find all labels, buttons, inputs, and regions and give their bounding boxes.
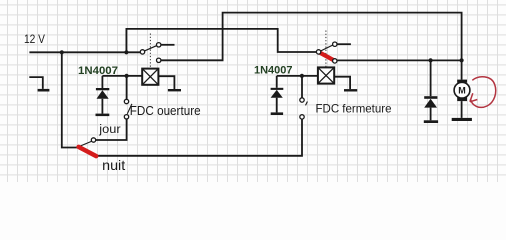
wire right diode riser xyxy=(276,76,278,88)
svg-text:FDC ouerture: FDC ouerture xyxy=(130,103,201,118)
FDC fermeture contact top xyxy=(300,98,304,102)
wire rightmost diode lead xyxy=(430,108,432,121)
FDC ouverture contact bottom xyxy=(124,115,128,119)
wire right relay to ground xyxy=(334,77,350,89)
wire motor bottom lead xyxy=(461,101,463,118)
wire 12V rail xyxy=(29,51,140,53)
svg-text:jour: jour xyxy=(98,122,120,136)
wire FDC ouverture top xyxy=(126,76,128,99)
wire right switch bottom throw to motor column xyxy=(337,59,462,61)
svg-text:12 V: 12 V xyxy=(24,32,45,46)
switch K1 blade (left, to top throw) xyxy=(145,46,157,51)
wire right diode lead xyxy=(276,98,278,113)
contact circle right switch top throw xyxy=(333,42,337,46)
wire stub right switch top throw xyxy=(337,43,351,45)
FDC fermeture switch tick xyxy=(306,102,308,106)
relay coil K2 box xyxy=(318,67,334,83)
wire left diode riser xyxy=(101,76,103,88)
jour/nuit switch red blade (nuit) xyxy=(79,147,97,156)
FDC ouverture switch blade xyxy=(127,104,132,114)
relay coil K1 box xyxy=(142,69,158,85)
diode D3 (motor clamp) xyxy=(424,96,437,107)
wire left relay feed xyxy=(102,75,142,77)
switch K2 red blade xyxy=(320,53,334,61)
svg-text:M: M xyxy=(458,86,466,96)
contact circle right switch bottom throw xyxy=(333,59,337,63)
contact circle right switch common xyxy=(316,50,320,54)
ground right relay xyxy=(344,89,357,91)
junction dot diode column xyxy=(429,58,433,62)
contact circle left switch bottom throw xyxy=(157,58,161,62)
switch K2 thin line to top throw xyxy=(321,45,333,51)
svg-text:FDC fermeture: FDC fermeture xyxy=(316,101,392,115)
svg-text:1N4007: 1N4007 xyxy=(78,65,118,77)
diode D1 (left 1N4007) xyxy=(96,88,109,99)
ground right diode xyxy=(271,112,283,115)
wire FDC fermeture top xyxy=(301,76,303,98)
diode D2 (right 1N4007) xyxy=(271,88,284,98)
junction dot right relay feed xyxy=(300,74,304,78)
junction dot motor column xyxy=(460,58,464,62)
ground left relay xyxy=(168,89,181,91)
contact circle left switch top throw xyxy=(157,43,161,47)
ground rightmost diode xyxy=(424,120,438,123)
dotted actuation line left relay xyxy=(149,34,151,69)
ground left supply xyxy=(38,89,50,92)
wire left ground hook xyxy=(29,77,43,89)
wire left vertical to jour/nuit switch xyxy=(62,52,78,147)
junction dot left relay feed xyxy=(125,74,129,78)
jour/nuit switch open line to jour contact xyxy=(79,141,92,147)
junction dot 12V mid xyxy=(124,50,128,54)
FDC ouverture contact top xyxy=(124,99,128,103)
wire right relay feed xyxy=(277,75,318,77)
wire left relay to ground xyxy=(158,76,174,89)
FDC fermeture contact bottom xyxy=(300,115,304,119)
svg-text:nuit: nuit xyxy=(102,157,125,173)
wire rightmost diode column xyxy=(430,60,432,96)
wire upper branch y=29 xyxy=(126,29,316,52)
wire FDC fermeture bottom to nuit wire xyxy=(96,119,302,156)
ground motor xyxy=(452,118,472,121)
dotted actuation line right relay xyxy=(325,31,327,67)
jour contact circle xyxy=(91,138,95,142)
motor M xyxy=(454,80,470,102)
svg-text:1N4007: 1N4007 xyxy=(254,65,293,77)
red rotation loop arrow xyxy=(470,77,496,108)
junction dot 12V left xyxy=(60,50,64,54)
wire from left switch bottom throw to top rail xyxy=(161,13,462,80)
ground left diode xyxy=(96,114,110,117)
wire FDC ouverture bottom to jour contact xyxy=(96,119,127,140)
wire left diode lead xyxy=(101,99,103,114)
wire stub from left switch top throw xyxy=(161,44,175,46)
contact circle left switch common xyxy=(140,50,144,54)
